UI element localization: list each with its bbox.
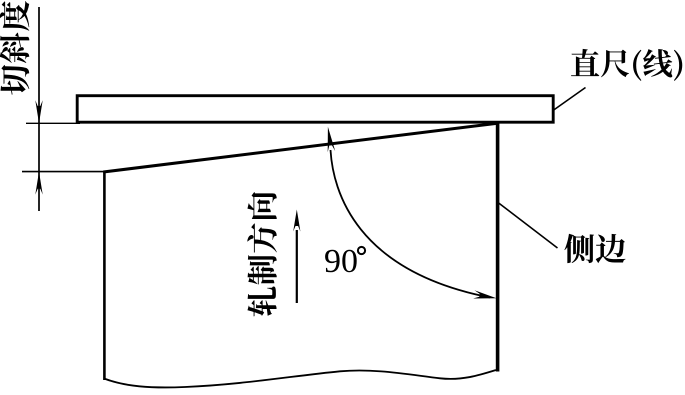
plate left edge [103, 171, 106, 380]
label: side edge 侧边 [564, 234, 625, 263]
plate wavy bottom break line [104, 370, 496, 387]
label: ruler (line) 直尺(线) [571, 49, 682, 81]
leader line to ruler label [553, 88, 586, 111]
dimension arrow down [35, 100, 42, 123]
plate top sloped edge [103, 123, 497, 172]
rolling direction arrow [296, 230, 298, 303]
dimension arrow up [35, 172, 42, 195]
label: rolling direction 轧制方向 (vertical) [247, 192, 277, 316]
90-degree angle arc [331, 150, 491, 298]
straight ruler (rectangle) [77, 96, 553, 123]
arc arrowhead top [328, 127, 336, 152]
label: cut obliquity 切斜度 (vertical) [0, 1, 29, 95]
leader line to side edge label [498, 203, 558, 249]
plate right side edge [496, 122, 500, 371]
extension line top (ruler bottom level) [26, 122, 80, 124]
arc arrowhead right [473, 290, 496, 298]
svg-text:90: 90 [324, 243, 358, 280]
extension line bottom (plate corner level) [22, 171, 105, 173]
dimension line (cut obliquity gap) [38, 7, 40, 211]
